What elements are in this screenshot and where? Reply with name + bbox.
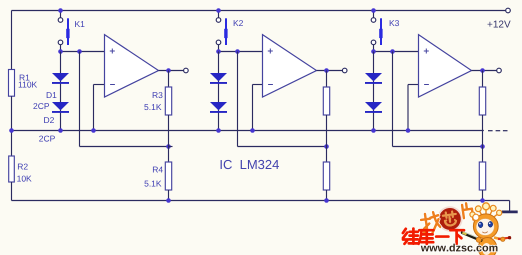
svg-text:2CP: 2CP [39, 134, 56, 144]
svg-text:5.1K: 5.1K [144, 178, 162, 188]
svg-text:5.1K: 5.1K [144, 102, 162, 112]
svg-text:K3: K3 [389, 18, 400, 28]
svg-text:2CP: 2CP [33, 101, 50, 111]
svg-text:10K: 10K [17, 174, 32, 184]
svg-text:D1: D1 [46, 90, 57, 100]
svg-text:+12V: +12V [487, 20, 511, 31]
svg-text:K2: K2 [233, 18, 244, 28]
svg-text:D2: D2 [44, 115, 55, 125]
svg-text:R4: R4 [152, 165, 163, 175]
svg-text:R2: R2 [17, 162, 28, 172]
svg-text:R3: R3 [152, 90, 163, 100]
svg-text:K1: K1 [75, 19, 86, 29]
svg-text:IC LM324: IC LM324 [219, 157, 279, 172]
svg-text:110K: 110K [18, 80, 38, 90]
